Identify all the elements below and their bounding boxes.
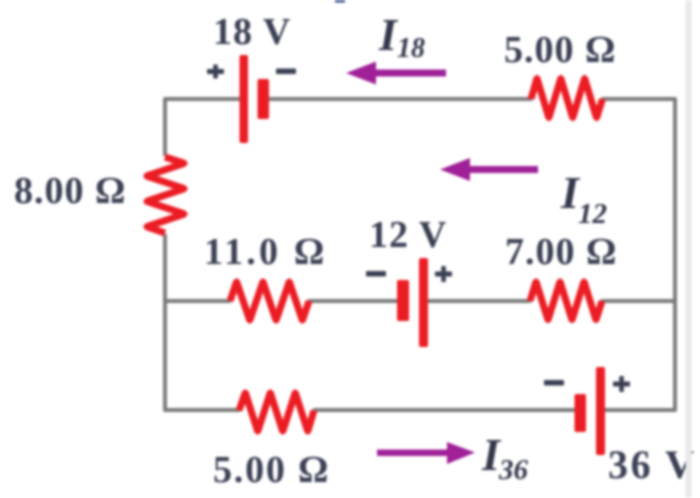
current arrow I36 (pointing right) (377, 442, 475, 464)
wire top from 18V battery to 5ohm resistor (268, 97, 532, 101)
battery 18V long plate (+) (240, 55, 249, 143)
plus sign of 36V battery (613, 376, 630, 392)
svg-text:5.00 Ω: 5.00 Ω (504, 29, 616, 71)
svg-text:18 V: 18 V (213, 11, 291, 53)
resistor R 5.00 ohm (bottom) (236, 389, 318, 435)
faint page edge stripe at right (686, 0, 692, 498)
blue crop mark at top edge (335, 0, 345, 3)
wire top-right corner, right vertical, bottom-right corner (602, 99, 676, 410)
wire left vertical below 8ohm, bottom-left corner, to 5ohm (165, 234, 240, 410)
minus sign of 36V battery (544, 380, 564, 386)
plus sign of 18V battery (207, 65, 224, 79)
wire top-left segment to 18V battery (165, 99, 240, 156)
wire middle row left of 11ohm (164, 299, 231, 303)
resistor R 5.00 ohm (top) (528, 75, 606, 122)
battery 12V short plate (-) (397, 280, 409, 321)
plus sign of 12V battery (435, 266, 452, 282)
svg-text:5.00 Ω: 5.00 Ω (213, 449, 330, 491)
svg-text:11.0 Ω: 11.0 Ω (204, 231, 328, 273)
wire middle right of 7ohm to right vertical (601, 299, 675, 303)
svg-text:12 V: 12 V (369, 214, 447, 256)
wire middle between 12V battery and 7ohm (428, 299, 531, 303)
battery 12V long plate (+) (419, 258, 428, 347)
battery 36V long plate (+) (596, 367, 605, 455)
wire middle between 11ohm and 12V battery (308, 299, 398, 303)
svg-text:18: 18 (397, 33, 425, 64)
minus sign of 18V battery (276, 69, 296, 75)
resistor R 7.00 ohm (middle right) (527, 278, 606, 324)
minus sign of 12V battery (366, 271, 386, 277)
svg-text:7.00 Ω: 7.00 Ω (505, 231, 617, 273)
svg-text:12: 12 (578, 198, 607, 230)
wire outer loop: top, right, left verticals (164, 99, 675, 410)
current arrow I18 (pointing left) (346, 62, 446, 85)
resistor R 11.0 ohm (middle left) (227, 278, 313, 324)
resistor R 8.00 ohm (left vertical) (143, 154, 188, 237)
svg-text:I: I (378, 9, 399, 60)
current arrow I12 (pointing left) (440, 158, 538, 181)
svg-text:36 V: 36 V (608, 442, 697, 487)
svg-text:8.00 Ω: 8.00 Ω (14, 170, 126, 212)
wire bottom between 5ohm and 36V battery (313, 408, 575, 412)
battery 36V short plate (-) (575, 394, 587, 432)
svg-text:36: 36 (498, 454, 529, 486)
battery 18V short plate (-) (258, 79, 270, 119)
